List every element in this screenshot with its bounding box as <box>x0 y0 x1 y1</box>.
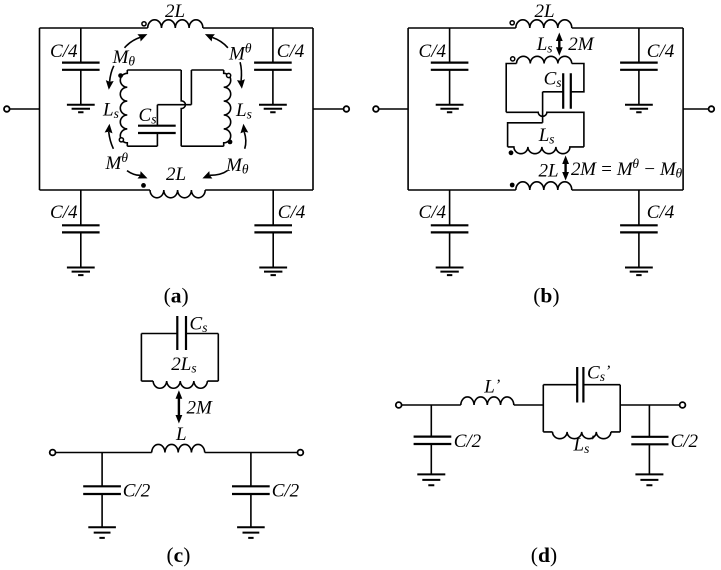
svg-text:2L: 2L <box>539 161 559 182</box>
svg-text:Cs’: Cs’ <box>587 363 610 385</box>
wire port P1 to box <box>10 108 40 110</box>
port P2 (b right) <box>709 106 715 112</box>
capacitor C/4 top-left (b) <box>449 28 451 104</box>
arrow M-theta TL to 2L top <box>125 37 141 47</box>
svg-text:Ls: Ls <box>102 100 119 122</box>
arrow M-sup-theta TR to 2L top <box>212 37 228 47</box>
svg-text:Ls: Ls <box>536 34 553 56</box>
ground (c left) <box>88 527 116 538</box>
svg-text:C/4: C/4 <box>278 202 306 223</box>
ground (a bottom-right) <box>259 268 287 276</box>
wire Ls-top left leg (b) <box>506 64 516 113</box>
wire crossing vertical with hop <box>181 70 185 146</box>
inductor L (c) <box>152 444 205 452</box>
polarity dot, 2L bottom left end (b) <box>510 183 515 188</box>
wire Cs bottom connector <box>156 133 158 146</box>
box outline (a) <box>40 28 314 190</box>
resonator loop box (c) <box>141 334 218 382</box>
arrow M-sup-theta BL to left coil <box>109 132 114 149</box>
svg-text:C/4: C/4 <box>419 202 447 223</box>
inductor Ls top (b) <box>517 56 572 63</box>
svg-text:(b): (b) <box>533 283 559 307</box>
capacitor Cs (c) <box>177 316 186 350</box>
inductor Ls bottom (b) <box>508 147 584 154</box>
ground (b bottom-left) <box>436 268 464 276</box>
capacitor C/2 left (d) <box>430 405 432 474</box>
svg-text:Cs: Cs <box>544 69 562 91</box>
svg-text:C/2: C/2 <box>123 481 151 502</box>
polarity dot left coil top <box>118 73 123 78</box>
polarity dot right coil bottom <box>228 140 233 145</box>
ground (d left) <box>417 474 445 485</box>
svg-text:2L: 2L <box>165 1 185 22</box>
polarity open circle, 2L top left end (b) <box>510 21 514 25</box>
wire right-top vertical <box>190 70 192 105</box>
capacitor C/2 right (d) <box>648 405 650 474</box>
polarity open circle right coil top <box>227 73 231 77</box>
wire Ls-top right leg to Cs (b) <box>571 64 584 92</box>
inductor 2L bottom (b) <box>516 182 572 190</box>
svg-text:Mθ: Mθ <box>105 150 129 174</box>
wire hop crossing (b) <box>506 112 584 147</box>
arrow M-theta BR to 2L bottom <box>210 171 228 176</box>
svg-text:C/4: C/4 <box>277 41 305 62</box>
inductor Ls left coil (a) <box>120 70 127 146</box>
ground (b top-right) <box>625 105 653 113</box>
svg-text:C/4: C/4 <box>50 41 78 62</box>
SUBFIGURE-A <box>4 1 349 308</box>
main line (c) <box>56 452 298 454</box>
port P1 (d left) <box>396 402 402 408</box>
wire right coil top segment <box>191 69 223 71</box>
svg-text:2L: 2L <box>166 164 186 185</box>
inductor Ls right coil (a) <box>224 70 231 146</box>
svg-text:2Ls: 2Ls <box>171 354 196 376</box>
inductor 2L bottom (a) <box>150 190 205 198</box>
double arrow 2M bottom (b) <box>564 163 566 174</box>
svg-text:Cs: Cs <box>139 105 157 127</box>
polarity open circle Ls top left end (b) <box>511 57 515 61</box>
wire box to port P2 <box>313 108 344 110</box>
port P2 (c right) <box>298 450 304 456</box>
wire Cs left plate to crossing (b) <box>543 92 564 123</box>
svg-text:C/2: C/2 <box>272 481 300 502</box>
wire left coil top to crossing <box>127 69 181 71</box>
arrow M-theta TL to left coil <box>110 66 114 82</box>
capacitor C/4 top-right (a) <box>272 28 274 104</box>
ground (a top-right) <box>259 105 287 113</box>
ground (c right) <box>237 527 265 538</box>
wire L-prime to tank (d) <box>514 404 544 406</box>
capacitor C/4 bottom-right (b) <box>638 190 640 267</box>
port P2 (d right) <box>680 402 686 408</box>
capacitor C/4 bottom-right (a) <box>272 190 274 267</box>
svg-text:L’: L’ <box>483 377 500 398</box>
inductor 2L top (a) <box>148 20 203 28</box>
box outline (b) <box>408 28 683 190</box>
svg-text:2L: 2L <box>535 1 555 22</box>
svg-text:(d): (d) <box>531 543 557 567</box>
capacitor C/4 bottom-left (b) <box>449 190 451 267</box>
main line left (d) <box>402 404 461 406</box>
arrow M-theta BR to right coil <box>244 132 246 149</box>
ground (d right) <box>635 474 663 485</box>
capacitor Cs (a) <box>138 126 176 133</box>
svg-text:2M: 2M <box>187 398 214 419</box>
ground (a bottom-left) <box>67 268 95 276</box>
svg-text:Mθ: Mθ <box>225 155 249 177</box>
port P1 (c left) <box>50 450 56 456</box>
inductor 2Ls (c) <box>153 381 207 388</box>
arrow M-sup-theta BL to 2L bottom <box>127 171 140 176</box>
svg-text:2M = Mθ − Mθ: 2M = Mθ − Mθ <box>571 156 682 181</box>
arrow M-sup-theta TR to right coil <box>240 62 241 81</box>
svg-text:Cs: Cs <box>190 314 208 336</box>
polarity open circle left coil bottom <box>119 138 123 142</box>
svg-text:C/4: C/4 <box>647 202 675 223</box>
capacitor C/4 bottom-left (a) <box>80 190 82 267</box>
port P1 (a left) <box>4 106 10 112</box>
wire port P1 to box (b) <box>379 108 408 110</box>
capacitor C/2 right (c) <box>250 453 252 527</box>
svg-text:C/4: C/4 <box>50 202 78 223</box>
polarity dot, 2L bottom left end <box>141 183 146 188</box>
svg-text:Ls: Ls <box>235 100 252 122</box>
capacitor C/4 top-right (b) <box>638 28 640 104</box>
wire horizontal to Cs <box>157 104 191 106</box>
capacitor Cs (b) <box>563 73 571 109</box>
polarity open circle, 2L top left end <box>142 22 146 26</box>
wire bottom-left segment <box>127 145 157 147</box>
inductor L-prime (d) <box>461 397 514 405</box>
wire Cs top connector <box>156 105 158 126</box>
svg-text:L: L <box>175 424 187 445</box>
svg-text:Ls: Ls <box>538 125 555 147</box>
svg-text:(a): (a) <box>164 283 189 307</box>
ground (a top-left) <box>67 105 95 113</box>
svg-text:C/4: C/4 <box>419 41 447 62</box>
tank loop box (d) <box>543 385 620 432</box>
port P2 (a right) <box>344 106 350 112</box>
svg-text:Mθ: Mθ <box>228 41 252 65</box>
polarity dot Ls bottom left end (b) <box>509 150 514 155</box>
port P1 (b left) <box>373 106 379 112</box>
inductor Ls-prime (d) <box>553 432 611 439</box>
ground (b top-left) <box>436 105 464 113</box>
capacitor Cs-prime (d) <box>577 367 583 403</box>
svg-text:Mθ: Mθ <box>112 47 136 69</box>
main line right (d) <box>620 404 679 406</box>
svg-text:Ls’: Ls’ <box>573 433 595 456</box>
svg-text:C/4: C/4 <box>647 41 675 62</box>
svg-text:C/2: C/2 <box>671 431 699 452</box>
SUBFIGURE-C <box>50 314 304 567</box>
SUBFIGURE-B <box>373 1 714 307</box>
wire bottom-right segment <box>181 145 224 147</box>
svg-text:C/2: C/2 <box>454 431 482 452</box>
inductor 2L top (b) <box>516 20 572 28</box>
capacitor C/2 left (c) <box>101 453 103 527</box>
wire box to port P2 (b) <box>683 108 709 110</box>
SUBFIGURE-D <box>396 363 699 567</box>
wire lower-left loop (b) <box>508 123 543 147</box>
capacitor C/4 top-left (a) <box>80 28 82 104</box>
double arrow 2M (c) <box>178 397 180 418</box>
double arrow 2M top (b) <box>558 40 560 50</box>
ground (b bottom-right) <box>625 268 653 276</box>
svg-text:(c): (c) <box>167 543 191 567</box>
svg-text:2M: 2M <box>568 34 595 55</box>
